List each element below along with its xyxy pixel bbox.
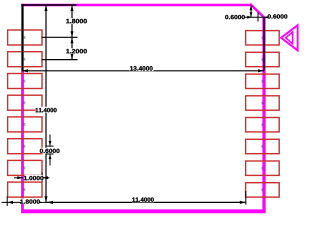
pad P14 pin-number dot xyxy=(261,145,263,148)
dimension 1.8000 (bottom left, full pad width) xyxy=(2,197,48,207)
module outline bottom edge xyxy=(21,209,265,213)
pad P4 pin-number dot xyxy=(24,101,26,104)
pad P8 pin-number dot xyxy=(24,188,26,191)
black extension overlay on right edge (13.4 dim) xyxy=(263,17,265,71)
pad P13 (right column) xyxy=(246,118,280,132)
pad P5 (left column) xyxy=(8,117,42,132)
dim text 1.0000 xyxy=(24,175,44,181)
dimension 0.6000 pad gap (left middle) xyxy=(46,135,54,166)
pad P6 (left column) xyxy=(8,139,42,154)
dim text 11.4000 (bottom) xyxy=(132,196,154,202)
dim text 13.4000 xyxy=(130,65,154,71)
black extension line along top edge xyxy=(22,4,77,6)
dim text 1.8000 (bottom) xyxy=(20,198,40,204)
dim text 0.6000 (pad gap) xyxy=(40,148,60,154)
dim text 1.8000 (top) xyxy=(66,18,87,24)
module outline right edge xyxy=(262,17,265,213)
pad P7 (left column) xyxy=(8,160,42,175)
pad P12 pin-number dot xyxy=(261,102,263,105)
pad P11 (right column) xyxy=(246,74,280,88)
module outline chamfer (top-right corner, outer line) xyxy=(250,4,266,19)
dimension 1.0000 (left, pad inner width) xyxy=(14,173,50,182)
pad P10 pin-number dot xyxy=(261,58,263,61)
pad P13 pin-number dot xyxy=(261,123,263,126)
module outline left edge xyxy=(21,4,24,213)
pad P1 (left column) xyxy=(8,30,42,45)
pad P12 (right column) xyxy=(246,96,280,110)
chamfer dimension 0.6000 vertical xyxy=(250,5,253,18)
pad P16 (right column) xyxy=(246,183,280,197)
dimension extension line at pad1 center xyxy=(42,36,78,38)
pad P9 pin-number dot xyxy=(261,36,263,39)
antenna triangle symbol outer xyxy=(281,25,298,50)
pad P4 (left column) xyxy=(8,95,42,110)
dimension line 13.4000 xyxy=(22,69,264,72)
pad P3 pin-number dot xyxy=(24,80,26,83)
chamfer dimension 0.6000 horizontal xyxy=(244,13,270,22)
dimension line 11.4000 (bottom) xyxy=(47,191,246,205)
dim text 1.2000 xyxy=(66,48,87,54)
pad P14 (right column) xyxy=(246,139,280,153)
vertical dimension line for 1.8000 / 1.2000 xyxy=(71,5,74,60)
pad P3 (left column) xyxy=(8,74,42,89)
pad P11 pin-number dot xyxy=(261,80,263,83)
pad P1 pin-number dot xyxy=(24,36,26,39)
dim text 0.6000 (chamfer right) xyxy=(268,13,288,19)
pad P6 pin-number dot xyxy=(24,145,26,148)
antenna triangle symbol inner xyxy=(286,32,293,44)
dim text 11.4000 (left vertical) xyxy=(36,107,58,113)
dim text 0.6000 (chamfer left) xyxy=(225,14,245,20)
pad P16 pin-number dot xyxy=(261,189,263,192)
module outline chamfer (top-right corner, inner line) xyxy=(252,6,264,17)
pad P2 pin-number dot xyxy=(24,58,26,61)
black extension overlay on left edge (13.4 dim) xyxy=(22,4,24,71)
pad P7 pin-number dot xyxy=(24,167,26,170)
dimension extension line at pad2 center xyxy=(42,59,78,61)
pad P5 pin-number dot xyxy=(24,123,26,126)
pad P2 (left column) xyxy=(8,52,42,67)
pad P8 (left column) xyxy=(8,182,42,197)
pad P9 (right column) xyxy=(246,31,280,45)
vertical dimension line 11.4000 xyxy=(45,5,48,203)
pad P10 (right column) xyxy=(246,52,280,66)
module outline top edge xyxy=(21,4,252,7)
pad P15 pin-number dot xyxy=(261,167,263,170)
pad P15 (right column) xyxy=(246,161,280,175)
